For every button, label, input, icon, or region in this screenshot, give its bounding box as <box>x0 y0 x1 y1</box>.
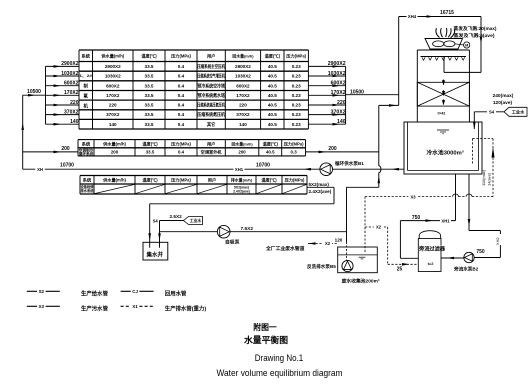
svg-text:40.5: 40.5 <box>268 93 277 98</box>
svg-text:空调室外机: 空调室外机 <box>201 149 223 156</box>
svg-text:750: 750 <box>476 249 485 255</box>
svg-text:40.5: 40.5 <box>268 83 277 88</box>
svg-text:其它: 其它 <box>207 121 216 128</box>
svg-text:33.5: 33.5 <box>145 74 154 79</box>
svg-text:压力(MPa): 压力(MPa) <box>171 177 191 184</box>
svg-text:33.5: 33.5 <box>145 103 154 108</box>
svg-text:370X2: 370X2 <box>331 109 346 115</box>
svg-text:170X2: 170X2 <box>64 90 79 96</box>
svg-text:排水系统: 排水系统 <box>81 188 95 193</box>
svg-text:X3: X3 <box>39 304 45 309</box>
svg-text:40.5: 40.5 <box>268 112 277 117</box>
svg-text:X3: X3 <box>410 194 416 199</box>
svg-text:40.5: 40.5 <box>268 64 277 69</box>
svg-text:33.5: 33.5 <box>145 83 154 88</box>
svg-text:XH4: XH4 <box>408 14 417 19</box>
svg-text:回水量(m/h): 回水量(m/h) <box>231 141 253 146</box>
svg-text:供水量(m/h): 供水量(m/h) <box>102 140 126 147</box>
svg-text:0.3: 0.3 <box>291 150 298 155</box>
svg-text:用户: 用户 <box>208 177 216 184</box>
svg-text:0.23: 0.23 <box>292 122 301 127</box>
svg-text:33.5: 33.5 <box>145 64 154 69</box>
svg-text:XH: XH <box>37 167 43 172</box>
svg-text:600X2: 600X2 <box>64 81 79 87</box>
svg-text:压力(MPa): 压力(MPa) <box>171 53 191 60</box>
svg-text:600X2: 600X2 <box>106 83 120 88</box>
svg-text:M: M <box>465 44 468 48</box>
svg-text:生产污水管: 生产污水管 <box>81 304 109 312</box>
svg-text:蒸发及飞溅:6(ave): 蒸发及飞溅:6(ave) <box>454 32 496 39</box>
svg-text:370X2: 370X2 <box>236 112 250 117</box>
svg-text:回水量(m/h): 回水量(m/h) <box>232 54 254 59</box>
svg-text:240(max): 240(max) <box>493 93 514 99</box>
svg-text:1030X2: 1030X2 <box>328 71 346 77</box>
svg-text:生产给水管: 生产给水管 <box>81 289 109 297</box>
svg-text:生产排水管(重力): 生产排水管(重力) <box>165 304 207 312</box>
svg-text:40.5: 40.5 <box>268 74 277 79</box>
svg-text:供水量(m/h): 供水量(m/h) <box>100 53 124 60</box>
svg-text:预冷系统空冷塔: 预冷系统空冷塔 <box>197 82 225 89</box>
svg-text:系统: 系统 <box>82 53 91 60</box>
svg-text:X2: X2 <box>325 241 331 246</box>
svg-text:370X2: 370X2 <box>64 109 79 115</box>
svg-text:压缩系统空气增压机: 压缩系统空气增压机 <box>197 73 225 80</box>
svg-text:压力(MPa): 压力(MPa) <box>284 140 304 147</box>
svg-text:0.4: 0.4 <box>178 93 185 98</box>
svg-text:25: 25 <box>397 267 403 273</box>
svg-text:X2: X2 <box>376 225 382 230</box>
svg-text:压缩系统高压氮压机: 压缩系统高压氮压机 <box>197 102 225 109</box>
svg-text:10700: 10700 <box>60 163 74 169</box>
svg-text:工业水: 工业水 <box>190 218 202 223</box>
svg-text:XH2: XH2 <box>495 237 500 245</box>
svg-text:温度(℃): 温度(℃) <box>142 140 158 147</box>
svg-text:2.4X2(ave): 2.4X2(ave) <box>309 189 332 194</box>
svg-text:170X2: 170X2 <box>331 90 346 96</box>
svg-text:S4: S4 <box>153 219 159 224</box>
svg-text:回用水管: 回用水管 <box>165 289 187 297</box>
svg-text:120: 120 <box>335 237 343 242</box>
svg-text:120(ave): 120(ave) <box>493 100 513 106</box>
svg-text:温度(℃): 温度(℃) <box>263 140 279 147</box>
svg-text:供水量(m/h): 供水量(m/h) <box>102 177 126 184</box>
svg-text:反洗排水泵B5: 反洗排水泵B5 <box>307 263 336 270</box>
svg-text:温度(℃): 温度(℃) <box>142 177 158 184</box>
svg-text:0.4: 0.4 <box>178 112 185 117</box>
svg-text:5X2(max): 5X2(max) <box>309 182 330 187</box>
svg-text:0.4: 0.4 <box>178 103 185 108</box>
svg-text:2900X2: 2900X2 <box>105 64 121 69</box>
svg-text:温度(℃): 温度(℃) <box>141 53 157 60</box>
svg-text:1030X2: 1030X2 <box>235 74 251 79</box>
svg-text:排水量(m/h): 排水量(m/h) <box>231 178 253 183</box>
svg-text:工业水: 工业水 <box>512 108 525 115</box>
svg-text:机: 机 <box>83 103 88 110</box>
svg-text:0.4: 0.4 <box>178 150 185 155</box>
svg-text:0.23: 0.23 <box>292 64 301 69</box>
svg-text:t=42: t=42 <box>438 111 447 116</box>
svg-text:40.5: 40.5 <box>266 150 275 155</box>
svg-text:压力(MPa): 压力(MPa) <box>171 140 191 147</box>
svg-text:33.5: 33.5 <box>146 150 155 155</box>
svg-text:600X2: 600X2 <box>236 83 250 88</box>
svg-text:0.23: 0.23 <box>292 103 301 108</box>
svg-text:0.23: 0.23 <box>292 74 301 79</box>
svg-text:系统: 系统 <box>83 177 92 184</box>
svg-text:附图一: 附图一 <box>253 322 277 332</box>
svg-text:XH1: XH1 <box>235 167 244 172</box>
svg-text:0.23: 0.23 <box>292 83 301 88</box>
svg-text:废水收集池200m³: 废水收集池200m³ <box>342 277 380 284</box>
svg-text:7.5X2: 7.5X2 <box>241 226 254 232</box>
svg-text:33.5: 33.5 <box>145 112 154 117</box>
svg-text:系统: 系统 <box>82 140 91 147</box>
svg-text:水量平衡图: 水量平衡图 <box>244 334 288 345</box>
svg-text:220: 220 <box>109 103 117 108</box>
svg-text:140: 140 <box>337 119 346 125</box>
svg-text:循环系统: 循环系统 <box>78 151 94 156</box>
svg-text:CJ: CJ <box>132 289 138 294</box>
svg-text:10500: 10500 <box>27 89 41 95</box>
svg-text:16715: 16715 <box>440 10 454 16</box>
svg-text:10500: 10500 <box>350 89 364 95</box>
svg-text:14(ave): 14(ave) <box>486 172 491 186</box>
svg-text:全厂工业废水管道: 全厂工业废水管道 <box>265 245 305 252</box>
svg-text:1030X2: 1030X2 <box>105 74 121 79</box>
svg-text:X1: X1 <box>132 304 138 309</box>
svg-text:220: 220 <box>337 100 346 106</box>
svg-text:0.4: 0.4 <box>178 74 185 79</box>
svg-text:压缩系统主空压机: 压缩系统主空压机 <box>197 63 225 70</box>
svg-text:200: 200 <box>238 150 246 155</box>
svg-text:0.23: 0.23 <box>292 93 301 98</box>
svg-text:预冷系统氮水塔: 预冷系统氮水塔 <box>197 92 225 99</box>
svg-text:压力(MPa): 压力(MPa) <box>286 53 306 60</box>
svg-text:0.4: 0.4 <box>178 64 185 69</box>
svg-text:氧: 氧 <box>82 93 88 100</box>
svg-text:蒸发及飞溅:20(max): 蒸发及飞溅:20(max) <box>454 25 498 32</box>
svg-text:200: 200 <box>111 150 119 155</box>
svg-text:33.5: 33.5 <box>145 93 154 98</box>
svg-text:S4: S4 <box>489 109 495 114</box>
svg-text:170X2: 170X2 <box>106 93 120 98</box>
svg-text:750: 750 <box>412 215 421 221</box>
svg-text:200: 200 <box>328 146 337 152</box>
svg-text:2900X2: 2900X2 <box>235 64 251 69</box>
svg-text:用户: 用户 <box>207 140 215 147</box>
svg-text:600X2: 600X2 <box>331 81 346 87</box>
svg-text:1、2#: 1、2# <box>79 73 92 78</box>
svg-text:Water volume equilibrium diagr: Water volume equilibrium diagram <box>217 368 343 378</box>
svg-text:用户: 用户 <box>207 53 215 60</box>
svg-text:10700: 10700 <box>256 162 270 168</box>
svg-text:170X2: 170X2 <box>236 93 250 98</box>
svg-text:温度(℃): 温度(℃) <box>265 53 281 60</box>
svg-text:140: 140 <box>70 119 79 125</box>
svg-text:0.23: 0.23 <box>292 112 301 117</box>
svg-text:集水井: 集水井 <box>146 250 164 258</box>
svg-text:40.5: 40.5 <box>268 122 277 127</box>
svg-text:循环供水泵B1: 循环供水泵B1 <box>335 160 364 167</box>
svg-text:自吸泵: 自吸泵 <box>225 239 240 246</box>
svg-text:冷水池3000m³: 冷水池3000m³ <box>426 149 463 157</box>
svg-text:33.5: 33.5 <box>145 122 154 127</box>
svg-text:压力(MPa): 压力(MPa) <box>285 177 305 184</box>
svg-text:Drawing No.1: Drawing No.1 <box>255 353 304 363</box>
svg-text:旁流过滤器: 旁流过滤器 <box>418 244 446 252</box>
svg-text:40.5: 40.5 <box>268 103 277 108</box>
svg-text:旁流水泵B2: 旁流水泵B2 <box>453 265 479 272</box>
svg-text:0.4: 0.4 <box>178 122 185 127</box>
svg-text:制: 制 <box>83 83 88 90</box>
svg-text:XH1: XH1 <box>441 218 450 223</box>
svg-text:t=2: t=2 <box>428 261 435 266</box>
svg-text:0.4: 0.4 <box>178 83 185 88</box>
svg-text:2900X2: 2900X2 <box>328 61 346 67</box>
svg-text:220: 220 <box>239 103 247 108</box>
svg-text:S2: S2 <box>39 289 45 294</box>
svg-text:200: 200 <box>61 146 70 152</box>
svg-text:2.4X2(ave): 2.4X2(ave) <box>233 190 250 194</box>
svg-text:温度(℃): 温度(℃) <box>261 177 277 184</box>
svg-text:2.5X2: 2.5X2 <box>170 214 183 219</box>
svg-text:140: 140 <box>109 122 117 127</box>
svg-text:2900X2: 2900X2 <box>61 61 78 67</box>
svg-text:1030X2: 1030X2 <box>61 71 78 77</box>
svg-text:压缩系统氮压机: 压缩系统氮压机 <box>197 111 225 118</box>
svg-text:140: 140 <box>239 122 247 127</box>
svg-text:370X2: 370X2 <box>106 112 120 117</box>
svg-text:220: 220 <box>70 100 79 106</box>
